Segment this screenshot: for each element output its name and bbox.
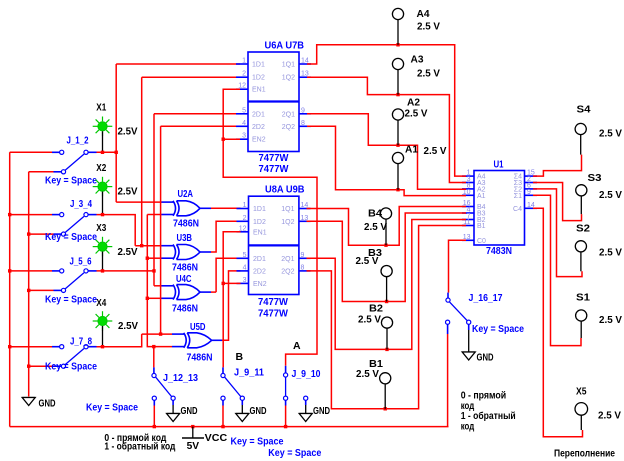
junction X1 stem / J_1_2 common <box>101 151 104 154</box>
pin U5D input stub 2 <box>172 346 185 348</box>
pin U1 11 (B1) <box>462 225 474 227</box>
xor gate U3B <box>173 245 200 260</box>
svg-text:X1: X1 <box>96 102 106 114</box>
wire S3 probe stem <box>580 196 582 214</box>
svg-text:U1: U1 <box>494 159 504 171</box>
svg-text:2Q1: 2Q1 <box>281 256 294 263</box>
pin J_9_10 throw2 stub <box>305 400 307 405</box>
wire A2 probe stem <box>397 120 399 145</box>
svg-text:2Q2: 2Q2 <box>282 124 295 131</box>
wire X5 probe stem <box>580 415 582 430</box>
junction rail / J_12_13 <box>153 425 156 428</box>
pin U8 12 (EN1) <box>237 231 250 233</box>
svg-text:2.5V: 2.5V <box>118 246 138 258</box>
wire J_12_13 throw2 to ground <box>172 405 174 413</box>
junction X2 stem / J_3_4 common <box>101 213 104 216</box>
junction rail / VCC source <box>191 425 194 428</box>
svg-text:4: 4 <box>243 264 247 271</box>
probe lamp X4 <box>93 311 113 331</box>
label S1 value 2.5V <box>599 314 622 326</box>
label U1 <box>494 159 504 171</box>
junction A3 probe <box>396 93 399 96</box>
ground GND3 (J_9_11) <box>236 414 249 422</box>
svg-text:2D1: 2D1 <box>252 111 265 118</box>
switch J_5_6 <box>60 269 88 293</box>
wire U4C lower input <box>147 297 161 299</box>
pin J_1_2 common stub <box>88 151 96 153</box>
svg-text:1D1: 1D1 <box>252 62 265 69</box>
label U4C <box>176 273 192 285</box>
svg-text:U6A U7B: U6A U7B <box>265 40 305 52</box>
label 5V <box>187 440 200 452</box>
label S2 value 2.5V <box>599 247 622 259</box>
wire S1 probe stem <box>580 321 582 338</box>
svg-text:7477W: 7477W <box>258 308 288 320</box>
wire GND rail to J_5_6 throw2 <box>29 289 54 291</box>
label X2 <box>96 162 106 174</box>
label GND3 <box>250 405 267 417</box>
wire U4C out to U8 2D1 <box>216 258 240 292</box>
pin U6 8 (2Q2) <box>299 125 311 127</box>
svg-text:GND: GND <box>313 405 330 417</box>
pin U6 12 (EN1) <box>236 88 248 90</box>
wire to U6 2D2 <box>161 125 240 127</box>
svg-text:2: 2 <box>242 71 246 78</box>
svg-text:A1: A1 <box>477 193 486 200</box>
label X4 <box>96 297 106 309</box>
probe S1 <box>576 310 587 321</box>
svg-text:2.5 V: 2.5 V <box>417 21 440 33</box>
wire VCC rail to J_1_2 throw1 <box>10 151 52 153</box>
probe S4 <box>575 123 586 134</box>
label A3 value 2.5V <box>417 68 440 80</box>
pin J_9_10 throw1 stub <box>285 400 287 405</box>
svg-text:EN1: EN1 <box>253 229 267 236</box>
label B1 value 2.5V <box>356 368 379 380</box>
wire J_5_6 common to node <box>97 270 155 272</box>
pin J_7_8 common stub <box>88 346 96 348</box>
pin U2A input stub 2 <box>162 214 174 216</box>
pin J_7_8 throw1 stub <box>52 346 59 348</box>
label X3 <box>96 222 106 234</box>
wire U2A out to U8 1D1 <box>211 207 241 209</box>
svg-text:Переполнение: Переполнение <box>554 448 615 460</box>
wire to U6 1D2 <box>142 76 240 78</box>
pin J_3_4 throw1 stub <box>52 214 59 216</box>
svg-text:2.5 V: 2.5 V <box>364 221 387 233</box>
wire bit3 vertical x155 <box>153 114 155 286</box>
label Key=Space J_1_2 <box>45 174 97 186</box>
label code note right line1 <box>461 390 507 402</box>
svg-text:2.5 V: 2.5 V <box>598 410 621 422</box>
pin U6 2 (1D2) <box>236 76 248 78</box>
wire X4 stem <box>102 326 104 347</box>
svg-text:U4C: U4C <box>176 273 192 285</box>
junction bit3 / J_5_6 <box>152 269 155 272</box>
wire J_9_11 throw1 to rail <box>222 406 224 427</box>
pin U6 14 (1Q1) <box>299 63 311 65</box>
svg-text:C0: C0 <box>477 238 486 245</box>
svg-text:2.5 V: 2.5 V <box>599 128 622 140</box>
label Key=Space J_9_10 <box>268 447 321 459</box>
label J_16_17 <box>469 292 503 304</box>
ground GND5 (J_9_10) <box>299 414 312 422</box>
pin U8 14 (1Q1) <box>299 208 311 210</box>
pin U3B input stub 1 <box>162 245 174 247</box>
pin U8 13 (1Q2) <box>299 220 311 222</box>
wire U5D out to U8 2D2 <box>222 271 241 340</box>
svg-text:J_5_6: J_5_6 <box>70 256 92 268</box>
label Key=Space J_12_13 <box>86 402 138 414</box>
wire bit2 vertical x141 <box>141 77 143 246</box>
label U3B <box>177 232 193 244</box>
pin U8 2 (1D2) <box>237 220 250 222</box>
wire net A strobe (U6 EN to J_9_10) <box>223 89 317 366</box>
svg-text:7486N: 7486N <box>173 218 199 230</box>
xor gate U5D <box>184 333 212 348</box>
wire U5D upper input line <box>142 333 172 335</box>
pin U1 6 (&#931;2) <box>525 188 537 190</box>
svg-text:2D2: 2D2 <box>253 268 266 275</box>
wire GND rail left vertical <box>28 172 30 397</box>
switch J_12_13 <box>152 373 175 400</box>
pin U6 9 (2Q1) <box>299 113 311 115</box>
pin J_5_6 throw2 stub <box>54 289 62 291</box>
svg-text:GND: GND <box>250 405 267 417</box>
junction bit2 / U3B input <box>140 244 143 247</box>
switch J_7_8 <box>60 345 88 369</box>
junction GND rail / J_5_6 <box>27 289 30 292</box>
label A1 <box>405 144 418 156</box>
svg-text:2D2: 2D2 <box>252 124 265 131</box>
pin U1 3 (A3) <box>462 182 474 184</box>
label J_3_4 <box>70 198 92 210</box>
pin U4C input stub 1 <box>162 285 174 287</box>
wire net S4 <box>533 155 582 177</box>
junction A2 probe <box>396 144 399 147</box>
svg-text:A3: A3 <box>411 54 424 66</box>
pin U5D input stub 1 <box>172 333 185 335</box>
svg-text:2.5 V: 2.5 V <box>424 145 447 157</box>
wire A3 probe stem <box>397 70 399 95</box>
wire B4 probe stem <box>385 219 387 245</box>
svg-text:U3B: U3B <box>177 232 193 244</box>
svg-text:9: 9 <box>301 252 305 259</box>
label U7 value 7477W <box>259 163 289 175</box>
svg-text:7486N: 7486N <box>172 303 198 315</box>
label GND5 <box>313 405 330 417</box>
latch U8A U9B (7477W) <box>249 196 299 294</box>
wire net B2 <box>307 220 467 350</box>
label B4 <box>368 208 382 220</box>
pin U3B input stub 2 <box>162 257 174 259</box>
label X5 value 2.5V <box>598 410 621 422</box>
svg-text:2.5 V: 2.5 V <box>405 108 428 120</box>
label Perepolnenie (overflow) <box>554 448 615 460</box>
pin J_12_13 common stub <box>153 367 155 373</box>
label Key=Space J_9_11 <box>231 436 284 448</box>
svg-text:4: 4 <box>242 120 246 127</box>
label X1 value 2.5V <box>118 126 138 138</box>
label code note right line4 <box>461 421 475 433</box>
probe A3 <box>392 58 403 69</box>
pin U6 3 (EN2) <box>236 138 248 140</box>
junction A4 probe <box>396 43 399 46</box>
pin U1 15 (&#931;4) <box>525 175 537 177</box>
pin U1 9 (&#931;1) <box>525 194 537 196</box>
wire J_1_2 common to node <box>97 151 117 153</box>
wire bit4 vertical x161 <box>160 126 162 334</box>
svg-text:B: B <box>236 351 244 363</box>
label X2 value 2.5V <box>118 186 138 198</box>
wire net S3 <box>533 183 582 221</box>
svg-text:1D1: 1D1 <box>253 206 266 213</box>
svg-text:3: 3 <box>243 277 247 284</box>
label U5D value 7486N <box>187 352 213 364</box>
wire VCC rail to J_7_8 throw1 <box>10 346 52 348</box>
pin J_3_4 throw2 stub <box>54 233 62 235</box>
wire S4 probe stem <box>580 135 582 155</box>
wire net A1 <box>307 126 466 195</box>
probe lamp X2 <box>93 177 113 197</box>
pin U1 8 (A2) <box>462 188 474 190</box>
svg-text:S1: S1 <box>576 292 590 304</box>
label S3 <box>588 172 602 184</box>
label code note right line2 <box>461 400 475 412</box>
label GND2 <box>181 405 198 417</box>
wire VCC bottom rail <box>10 426 449 428</box>
pin J_9_11 common stub <box>222 367 224 373</box>
wire to U6 1D1 <box>116 63 240 65</box>
svg-text:GND: GND <box>181 405 198 417</box>
svg-text:1D2: 1D2 <box>253 219 266 226</box>
pin J_16_17 common stub <box>447 293 449 298</box>
label J_9_11 <box>234 367 264 379</box>
label J_7_8 <box>70 336 92 348</box>
junction GND rail / J_7_8 <box>27 365 30 368</box>
switch J_1_2 <box>60 150 88 174</box>
label X1 <box>96 102 106 114</box>
svg-text:J_12_13: J_12_13 <box>163 372 198 384</box>
svg-text:B1: B1 <box>477 223 486 230</box>
pin U3B output stub <box>200 251 211 253</box>
wire J_12_13 throw1 to rail <box>153 406 155 427</box>
svg-text:2.5 V: 2.5 V <box>599 247 622 259</box>
svg-text:2.5 V: 2.5 V <box>417 68 440 80</box>
wire J_7_8 common jog up <box>97 334 142 347</box>
label S3 value 2.5V <box>599 189 622 201</box>
svg-text:2.5 V: 2.5 V <box>356 255 379 267</box>
wire A4 probe stem <box>397 20 399 45</box>
pin J_1_2 throw1 stub <box>52 151 59 153</box>
pin J_5_6 throw1 stub <box>52 270 59 272</box>
junction rail / J_9_10 <box>284 425 287 428</box>
svg-text:Key = Space: Key = Space <box>45 294 97 306</box>
wire U4C out stub join <box>211 291 216 293</box>
wire X1 stem <box>102 131 104 152</box>
probe A2 <box>392 109 403 120</box>
pin J_1_2 throw2 stub <box>54 171 62 173</box>
junction control / J_12_13 <box>152 345 155 348</box>
wire net A4 <box>307 45 466 176</box>
junction B2 probe <box>385 348 388 351</box>
svg-text:Key = Space: Key = Space <box>45 360 97 372</box>
pin U1 1 (A4) <box>462 175 474 177</box>
wire net S1 <box>533 195 581 345</box>
label X4 value 2.5V <box>118 320 138 332</box>
wire VCC rail left vertical <box>9 152 11 426</box>
pin J_9_11 throw2 stub <box>241 400 243 405</box>
wire J_9_11 throw2 to ground <box>241 405 243 413</box>
probe B4 <box>380 208 391 219</box>
label A4 <box>417 8 430 20</box>
label U1 value 7483N <box>486 245 512 257</box>
pin U6 4 (2D2) <box>236 125 248 127</box>
junction U6 EN2 / net A <box>222 138 225 141</box>
pin U1 13 (C0) <box>462 239 474 241</box>
wire net C4 (overflow) <box>533 208 583 436</box>
pin U8 3 (EN2) <box>237 282 250 284</box>
wire S2 probe stem <box>580 252 582 271</box>
wire A1 probe stem <box>397 164 399 190</box>
pin J_16_17 throw1 stub <box>447 324 449 334</box>
probe B1 <box>380 373 391 384</box>
wire B2 probe stem <box>386 328 388 349</box>
label J_1_2 <box>67 135 89 147</box>
label U8 value 7477W <box>258 296 288 308</box>
probe X5 <box>575 403 588 416</box>
pin J_7_8 throw2 stub <box>54 365 62 367</box>
svg-text:X2: X2 <box>96 162 106 174</box>
svg-text:код: код <box>461 421 475 433</box>
wire U2A lower input <box>147 214 161 216</box>
label S4 <box>577 104 591 116</box>
wire bit1 vertical x116 <box>115 64 117 202</box>
svg-text:EN2: EN2 <box>253 281 267 288</box>
wire B3 probe stem <box>386 277 388 302</box>
label S2 <box>576 223 590 235</box>
junction bit1 / J_1_2 <box>115 151 118 154</box>
svg-text:1D2: 1D2 <box>252 75 265 82</box>
label A3 <box>411 54 424 66</box>
wire X2 stem <box>102 192 104 215</box>
wire U2A upper input <box>116 201 161 203</box>
pin J_5_6 common stub <box>88 270 96 272</box>
label node B <box>236 351 244 363</box>
label U9 value 7477W <box>258 308 288 320</box>
pin U8 9 (2Q1) <box>299 257 311 259</box>
pin U5D output stub <box>212 339 222 341</box>
label U3B value 7486N <box>172 262 198 274</box>
svg-text:Key = Space: Key = Space <box>231 436 284 448</box>
label U4C value 7486N <box>172 303 198 315</box>
pin J_12_13 throw2 stub <box>172 400 174 405</box>
wire U4C upper input <box>154 285 162 287</box>
wire VCC rail to J_5_6 throw1 <box>10 270 52 272</box>
svg-text:1: 1 <box>243 202 247 209</box>
label code note right line3 <box>461 410 516 422</box>
label B2 <box>369 303 383 315</box>
pin U6 13 (1Q2) <box>299 76 311 78</box>
junction VCC rail / J_3_4 <box>8 213 11 216</box>
switch J_9_11 <box>221 373 245 400</box>
label GND4 <box>477 352 494 364</box>
wire VCC rail to J_3_4 throw1 <box>10 214 52 216</box>
switch J_3_4 <box>60 213 88 237</box>
junction control / U4C input <box>146 297 149 300</box>
svg-text:EN1: EN1 <box>252 87 266 94</box>
pin J_16_17 throw2 stub <box>468 324 470 330</box>
pin U1 2 (&#931;3) <box>525 182 537 184</box>
pin U1 16 (B4) <box>462 206 474 208</box>
svg-text:8: 8 <box>301 264 305 271</box>
label J_9_10 <box>292 368 321 380</box>
probe S3 <box>576 185 587 196</box>
pin U1 14 (C4) <box>525 207 537 209</box>
svg-text:VCC: VCC <box>205 432 228 444</box>
svg-text:2.5 V: 2.5 V <box>599 189 622 201</box>
label A2 value 2.5V <box>405 108 428 120</box>
junction control / U3B input <box>146 257 149 260</box>
svg-text:J_7_8: J_7_8 <box>70 336 92 348</box>
pin J_3_4 common stub <box>88 214 96 216</box>
svg-text:7483N: 7483N <box>486 245 512 257</box>
svg-text:1Q2: 1Q2 <box>282 75 295 82</box>
svg-text:2Q2: 2Q2 <box>281 268 294 275</box>
junction X4 stem / J_7_8 common <box>101 345 104 348</box>
wire net A3 <box>307 77 466 182</box>
wire control rail vertical x147 + U5D lower input <box>147 215 172 347</box>
svg-text:9: 9 <box>301 107 305 114</box>
label B2 value 2.5V <box>358 314 381 326</box>
label A4 value 2.5V <box>417 21 440 33</box>
pin U8 1 (1D1) <box>237 208 250 210</box>
svg-text:9: 9 <box>527 189 531 196</box>
ground GND1 (left rail) <box>22 398 35 406</box>
svg-text:B4: B4 <box>368 208 382 220</box>
label B1 <box>369 358 383 370</box>
junction U8 EN2 / net B <box>222 282 225 285</box>
svg-text:J_1_2: J_1_2 <box>67 135 89 147</box>
label U6 value 7477W <box>259 152 289 164</box>
label Key=Space J_5_6 <box>45 294 97 306</box>
label U8A U9B <box>265 184 305 196</box>
svg-text:A4: A4 <box>417 8 430 20</box>
wire net C0 to J_16_17 <box>449 240 467 292</box>
label S4 value 2.5V <box>599 128 622 140</box>
wire U8 EN2 to strobe <box>223 282 240 284</box>
wire U3B upper input <box>135 245 161 247</box>
svg-text:S3: S3 <box>588 172 602 184</box>
svg-text:7477W: 7477W <box>259 163 289 175</box>
label Key=Space J_7_8 <box>45 360 97 372</box>
wire GND rail to J_7_8 throw2 <box>29 365 54 367</box>
pin U8 8 (2Q2) <box>299 270 311 272</box>
svg-text:J_9_11: J_9_11 <box>234 367 264 379</box>
wire net A2 <box>307 114 466 189</box>
svg-text:5V: 5V <box>187 440 200 452</box>
svg-text:2D1: 2D1 <box>253 256 266 263</box>
ground GND2 (J_12_13) <box>167 414 180 422</box>
svg-text:S2: S2 <box>576 223 590 235</box>
xor gate U4C <box>173 285 200 300</box>
wire J_16_17 throw1 to VCC rail <box>447 334 449 427</box>
svg-text:A1: A1 <box>405 144 418 156</box>
label code note left line1 <box>104 432 166 444</box>
junction B3 probe <box>385 300 388 303</box>
junction bit4 / U5D input <box>159 332 162 335</box>
pin U2A output stub <box>200 207 211 209</box>
